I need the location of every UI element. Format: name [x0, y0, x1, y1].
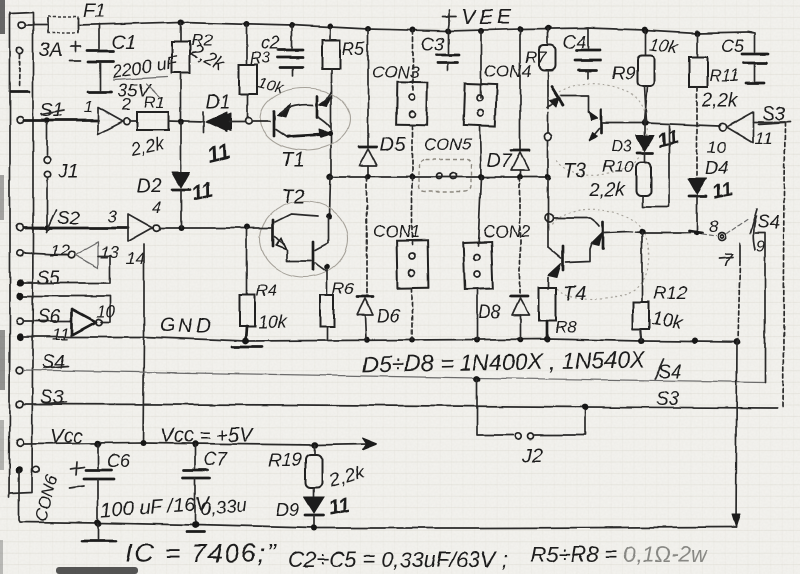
transistor T2 pair outline [260, 201, 348, 277]
terminal Vcc [17, 440, 24, 447]
terminal S6 input [17, 318, 24, 325]
resistor R1 [130, 112, 203, 130]
resistor R4 [240, 228, 255, 341]
node T2 collector [326, 213, 332, 219]
wire top VEE rail [25, 22, 748, 33]
node top rail R11 [694, 30, 700, 36]
resistor R19 [306, 445, 322, 497]
marking 11 at D9 [326, 493, 351, 519]
wire S1 input [24, 119, 98, 122]
node R3/D1/T1 junction [245, 118, 252, 125]
connector CON6 left edge bracket [9, 12, 33, 497]
node top rail CON3 [410, 27, 416, 33]
ground tick C7 [186, 531, 204, 534]
transistor T1 [251, 91, 331, 137]
wire S6 output loop [24, 296, 110, 322]
connector CON3 [397, 30, 428, 177]
node top rail C2 [289, 22, 295, 28]
wire S4 net [24, 370, 764, 382]
node mid rail CON4 [478, 174, 484, 180]
connector CON4 [463, 31, 496, 177]
node top rail R7 [545, 25, 551, 31]
connector CON1 [397, 177, 429, 340]
wire T2 collector column [329, 177, 330, 216]
value 2,2k R19 [326, 461, 369, 492]
node C7 [192, 441, 198, 447]
node D4/S4 [689, 231, 702, 233]
node top rail R2 [178, 19, 184, 25]
node mid rail left [327, 174, 333, 180]
node mid rail T3/T4 [545, 174, 551, 180]
capacitor C6 [69, 444, 114, 523]
node top rail C3 [445, 28, 451, 34]
inverter gate S5 (points left) [68, 242, 98, 268]
terminal bottom return [15, 466, 23, 474]
node R19 [312, 442, 318, 448]
capacitor C3 [437, 31, 459, 71]
diode D8 [511, 177, 529, 340]
value 2,2k R2 [187, 40, 228, 75]
capacitor C7 [183, 444, 209, 524]
resistor R7 [539, 28, 556, 86]
terminal GND [16, 333, 23, 340]
transistor T2 [249, 214, 330, 295]
value 10k R3 [256, 74, 286, 97]
wire S5 input loop [24, 256, 110, 283]
inverter gate S3 (points left) [718, 112, 785, 143]
ground symbol R4 [232, 338, 262, 347]
wire S3 right edge drop [783, 122, 785, 408]
value 2,2k [128, 133, 167, 160]
fuse F1 3A [48, 16, 78, 33]
resistor R12 [633, 232, 649, 341]
node C7 gnd [192, 522, 199, 529]
junction nodes on GND rail [364, 337, 370, 343]
scan noise overlay [0, 0, 1, 1]
connector CON2 [463, 177, 493, 340]
node R9/D3 [642, 120, 648, 126]
wire S2 input [24, 227, 128, 230]
diode D2 [172, 122, 190, 228]
node T1 emitter [327, 130, 332, 135]
transistor T3 [544, 86, 601, 177]
terminal S2 input [17, 225, 24, 232]
inverter gate S2 [128, 214, 160, 242]
resistor R3 [239, 24, 257, 118]
wire S3 net [24, 404, 778, 408]
node pin14/Vcc [140, 440, 146, 446]
resistor R8 [539, 288, 556, 340]
value 10k R9 [648, 34, 681, 58]
terminal S3 [17, 401, 24, 408]
marking 11 at D3 [655, 126, 680, 152]
node C6 gnd [94, 519, 101, 526]
wire right edge down to bottom rail [736, 342, 737, 527]
node mid rail CON3 [409, 174, 415, 180]
wire S6 input [24, 320, 72, 322]
node top rail R5 [327, 23, 333, 29]
wire S5 output [24, 253, 67, 255]
value 2200uF/35V [109, 52, 179, 82]
ground symbol C6 [82, 523, 116, 541]
jumper J2 [474, 376, 589, 440]
terminal S5 output [17, 250, 23, 256]
chassis terminal top-left [11, 22, 29, 92]
resistor R11 [689, 33, 707, 176]
wire S2 output to T2 [160, 227, 247, 229]
node top rail D5 [365, 26, 371, 32]
terminal S5 input [16, 279, 23, 286]
node top rail R3 [244, 21, 250, 27]
resistor R2 [172, 22, 190, 122]
terminal S4 [17, 367, 24, 374]
pin 9 bracket [753, 216, 765, 382]
diode D3 [636, 123, 654, 162]
node R12 top [639, 229, 645, 235]
wire bottom rail [19, 470, 736, 528]
junction node R1/D1/R2/D2 [178, 119, 184, 125]
node top rail CON4 [478, 28, 484, 34]
capacitor C1 [69, 24, 114, 92]
capacitor C2 [278, 25, 303, 76]
terminal S6 return [16, 292, 23, 299]
value 100uF/16V [100, 492, 212, 522]
marking 11 at D2 [189, 179, 215, 206]
node D9 gnd [311, 525, 317, 531]
resistor R10 [636, 126, 669, 207]
transistor T1 pair outline [260, 88, 350, 150]
diode D1 [203, 112, 244, 133]
diode D4 [688, 178, 707, 230]
transistor T4 pair outline [552, 210, 649, 300]
resistor R6 [320, 295, 334, 340]
diode D6 [357, 177, 373, 340]
wire T4 output [604, 232, 628, 233]
marking 11 under D1 [204, 138, 232, 168]
resistor R5 [322, 26, 340, 177]
note D5-D8 types [362, 346, 647, 377]
wire mid output rail [330, 176, 548, 178]
marking 11 at D4 [711, 179, 735, 204]
node mid rail D7 [517, 174, 523, 180]
wire pin14 to Vcc [143, 245, 144, 443]
capacitor C5 [742, 32, 768, 83]
resistor R9 [637, 30, 654, 122]
value 10k R12 [650, 308, 685, 334]
jumper J1 [44, 123, 51, 228]
node top rail R9 [642, 27, 649, 34]
value 0,33u [200, 495, 249, 519]
node mid rail D5 [365, 174, 371, 180]
diode D7 [511, 29, 529, 177]
capacitor C4 [575, 28, 601, 78]
connector CON5 [419, 159, 471, 192]
terminal S1 input on CON6 [17, 117, 24, 124]
diode D9 [304, 497, 324, 528]
transistor T3 pair outline [556, 84, 647, 175]
wire T3 output [603, 123, 718, 126]
wire Vcc rail with arrow [24, 438, 377, 450]
inverter gate S1 (7406) [98, 107, 130, 134]
pin 7 prong [720, 243, 740, 342]
node top rail D7 [517, 26, 523, 32]
diode D5 [359, 29, 377, 177]
switch S4 contact [702, 219, 748, 241]
wire GND rail [24, 337, 737, 342]
power +VEE [442, 10, 456, 31]
transistor T4 [545, 177, 603, 289]
inverter gate S6 [72, 309, 102, 335]
node C6 [95, 441, 101, 447]
